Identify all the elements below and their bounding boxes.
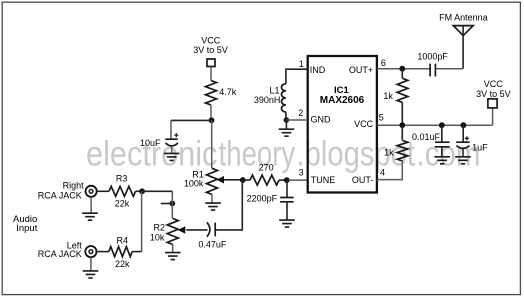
label R2 10k xyxy=(150,223,165,243)
svg-text:10k: 10k xyxy=(150,233,165,243)
svg-text:R3: R3 xyxy=(116,173,128,183)
svg-text:MAX2606: MAX2606 xyxy=(320,95,365,106)
svg-text:R4: R4 xyxy=(117,236,129,246)
power VCC2 terminal square xyxy=(488,99,497,108)
label Left RCA JACK xyxy=(38,240,83,259)
wire VCC1 square to 4.7k resistor xyxy=(210,67,212,81)
svg-text:1000pF: 1000pF xyxy=(417,52,448,62)
svg-text:R2: R2 xyxy=(153,223,165,233)
svg-text:3V to 5V: 3V to 5V xyxy=(193,45,228,55)
pin number 1 xyxy=(299,59,304,69)
power VCC2 label xyxy=(476,79,511,99)
ground under left jack xyxy=(83,271,99,278)
ground under 1uF xyxy=(455,157,471,164)
wire left jack to R4 xyxy=(97,251,109,253)
capacitor 1uF polarized xyxy=(456,136,469,157)
wire node F to pin 2 xyxy=(286,119,307,121)
wire node G to 1k top xyxy=(401,69,403,79)
svg-text:Input: Input xyxy=(16,223,37,234)
label Right RCA JACK xyxy=(38,180,84,200)
svg-text:VCC: VCC xyxy=(201,35,221,45)
pin label GND xyxy=(311,114,332,124)
svg-text:OUT+: OUT+ xyxy=(349,65,373,75)
pin label IND xyxy=(310,65,326,75)
svg-text:4.7k: 4.7k xyxy=(219,87,237,97)
node I junction dot xyxy=(439,122,445,128)
svg-text:4: 4 xyxy=(380,168,385,178)
power VCC1 label xyxy=(193,35,228,55)
svg-text:OUT-: OUT- xyxy=(352,175,374,185)
label 1uF xyxy=(472,142,488,152)
label 1k lower xyxy=(384,147,394,157)
svg-text:RCA JACK: RCA JACK xyxy=(38,249,82,259)
connector left RCA jack xyxy=(85,246,96,257)
wire 4.7k bottom to node xyxy=(210,105,212,120)
wire node C down to capacitor 2200pF xyxy=(286,180,288,197)
label 270 xyxy=(259,163,274,173)
pin label TUNE xyxy=(311,175,336,185)
ground under right jack xyxy=(82,213,98,220)
ground under 2200pF xyxy=(279,220,295,227)
wire left jack to ground xyxy=(90,257,92,271)
svg-text:6: 6 xyxy=(381,58,386,68)
IC IC1 MAX2606 box xyxy=(308,56,377,193)
svg-text:0.47uF: 0.47uF xyxy=(198,239,227,249)
wire right jack to R3 xyxy=(97,190,109,192)
pin label OUT- xyxy=(352,175,374,185)
svg-text:1k: 1k xyxy=(383,91,393,101)
svg-text:1uF: 1uF xyxy=(472,142,488,152)
label 1000pF xyxy=(417,52,448,62)
svg-text:270: 270 xyxy=(259,163,274,173)
node C junction dot xyxy=(284,177,290,183)
antenna FM xyxy=(453,26,473,69)
pin number 2 xyxy=(298,108,303,118)
svg-text:.blogspot: .blogspot xyxy=(297,135,416,174)
svg-text:2: 2 xyxy=(298,108,303,118)
svg-text:0.01uF: 0.01uF xyxy=(412,132,441,142)
svg-text:1: 1 xyxy=(299,59,304,69)
node D junction dot with stub xyxy=(161,201,176,207)
label 0.47uF xyxy=(198,239,227,249)
node F junction dot at L1 bottom xyxy=(284,117,290,123)
wire R1 bottom to ground xyxy=(211,195,213,204)
label Audio Input xyxy=(13,214,38,234)
wire node I to 0.01uF xyxy=(441,125,443,142)
label 10uF xyxy=(140,138,161,148)
wire VCC2 drop xyxy=(492,108,494,125)
potentiometer R1 100k xyxy=(207,168,225,194)
resistor 1k lower xyxy=(397,141,408,162)
wire node C to pin 3 xyxy=(289,179,308,181)
svg-text:1k: 1k xyxy=(384,147,394,157)
label 0.01uF xyxy=(412,132,441,142)
wire 270 to node C xyxy=(279,179,287,181)
svg-text:10uF: 10uF xyxy=(140,138,161,148)
wire R4 to node E column xyxy=(132,251,141,253)
wire node H to 1k lower xyxy=(401,125,403,140)
svg-text:22k: 22k xyxy=(115,198,130,208)
svg-text:GND: GND xyxy=(311,114,332,124)
node E junction dot xyxy=(139,188,145,194)
wire R3 to node E xyxy=(136,190,143,192)
svg-text:FM Antenna: FM Antenna xyxy=(439,13,488,23)
svg-text:Right: Right xyxy=(63,180,85,190)
wire pin 1 to L1 xyxy=(286,69,308,84)
wire node J to 1uF xyxy=(462,125,464,142)
connector right RCA jack xyxy=(86,186,97,197)
svg-text:theory: theory xyxy=(219,135,296,174)
capacitor 0.01uF xyxy=(435,142,450,157)
ground under R1 xyxy=(205,203,221,210)
label IC1 MAX2606 xyxy=(320,85,365,106)
ground under L1 xyxy=(279,129,295,136)
pin number 3 xyxy=(299,168,304,178)
svg-text:390nH: 390nH xyxy=(254,95,281,105)
node H junction dot xyxy=(399,122,405,128)
wire right jack to ground xyxy=(90,197,92,213)
wire R2 bottom to ground xyxy=(172,245,174,253)
svg-text:22k: 22k xyxy=(115,259,130,269)
capacitor 1000pF xyxy=(430,64,435,77)
label 4.7k xyxy=(219,87,237,97)
svg-text:VCC: VCC xyxy=(354,119,374,129)
svg-text:5: 5 xyxy=(379,112,384,122)
ground under 10uF xyxy=(164,153,180,160)
label FM Antenna xyxy=(439,13,488,23)
resistor R3 22k xyxy=(109,186,136,196)
wire R1 wiper to node B xyxy=(224,179,243,181)
capacitor 10uF polarized xyxy=(165,133,178,153)
resistor 270 xyxy=(250,175,279,185)
svg-text:100k: 100k xyxy=(184,179,204,189)
resistor R4 22k xyxy=(109,247,132,257)
ground under R2 xyxy=(165,253,181,260)
label R3 22k xyxy=(115,173,130,208)
wire node F to ground xyxy=(285,120,287,129)
svg-text:IND: IND xyxy=(310,65,326,75)
svg-text:RCA JACK: RCA JACK xyxy=(38,191,82,201)
label 2200pF xyxy=(247,194,278,204)
capacitor 2200pF xyxy=(280,198,294,221)
node J junction dot xyxy=(461,122,467,128)
pin label OUT+ xyxy=(349,65,373,75)
wire node E to node D corner xyxy=(142,190,172,192)
wire node B down to capacitor 0.47uF xyxy=(215,180,242,230)
node G junction dot xyxy=(399,66,405,72)
wire node B to resistor 270 xyxy=(243,179,250,181)
potentiometer R2 10k xyxy=(167,218,185,244)
wire 1k lower to pin 4 xyxy=(377,161,402,180)
svg-text:2200pF: 2200pF xyxy=(247,194,278,204)
pin label VCC xyxy=(354,119,374,129)
wire 1k to node H xyxy=(401,103,403,126)
svg-text:TUNE: TUNE xyxy=(311,175,336,185)
node A junction dot xyxy=(209,117,215,123)
inductor L1 390nH xyxy=(281,84,285,120)
wire 1000pF to antenna xyxy=(435,68,462,70)
wire node A down to R1 xyxy=(211,120,213,168)
wire node D vertical xyxy=(171,191,173,218)
wire 0.47uF to R2 wiper xyxy=(186,229,207,231)
svg-text:3: 3 xyxy=(299,168,304,178)
resistor 1k upper xyxy=(397,78,408,102)
capacitor 0.47uF xyxy=(207,222,215,236)
wire pin 6 OUT+ line xyxy=(377,68,430,70)
label R1 100k xyxy=(184,170,204,189)
svg-text:VCC: VCC xyxy=(484,79,504,89)
pin number 4 xyxy=(380,168,385,178)
pin number 5 xyxy=(379,112,384,122)
wire node E down to R4 xyxy=(141,191,143,251)
node B junction dot xyxy=(240,177,246,183)
wire node A to capacitor 10uF xyxy=(171,120,212,139)
label 1k upper xyxy=(383,91,393,101)
resistor 4.7k xyxy=(206,81,217,106)
wire pin 5 VCC line xyxy=(377,124,493,126)
label R4 22k xyxy=(115,236,130,270)
label L1 390nH xyxy=(254,86,281,105)
ground under 0.01uF xyxy=(434,157,450,164)
svg-text:3V to 5V: 3V to 5V xyxy=(476,89,511,99)
pin number 6 xyxy=(381,58,386,68)
power VCC1 terminal square xyxy=(207,59,215,67)
